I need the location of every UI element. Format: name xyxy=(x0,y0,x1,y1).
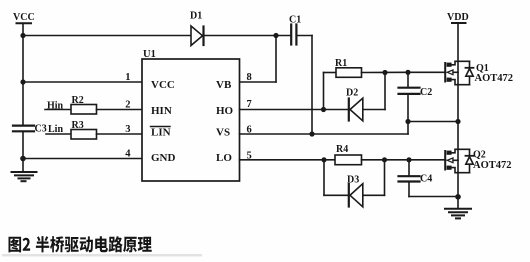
svg-text:VCC: VCC xyxy=(151,79,175,91)
wire D3 branch vertical left xyxy=(323,160,325,196)
svg-text:Q2: Q2 xyxy=(473,150,486,161)
svg-text:VDD: VDD xyxy=(447,12,469,23)
diode D2 xyxy=(349,98,363,121)
node junction C2 / phase link xyxy=(405,119,410,124)
net VCC power symbol xyxy=(17,22,32,24)
capacitor C4 xyxy=(399,176,420,181)
svg-text:4: 4 xyxy=(125,149,131,160)
resistor R4 xyxy=(335,155,362,165)
svg-text:AOT472: AOT472 xyxy=(473,160,512,171)
caption 图2 半桥驱动电路原理 xyxy=(9,236,152,252)
node junction VS line xyxy=(309,131,314,136)
svg-text:LO: LO xyxy=(216,152,232,164)
wire C2 top lead xyxy=(407,72,409,87)
wire Q2 source to ground xyxy=(457,173,459,208)
resistor R3 xyxy=(71,130,97,140)
wire C2 bottom lead xyxy=(407,95,409,134)
wire phase link horizontal xyxy=(408,121,458,123)
wire VDD to Q1 drain xyxy=(457,23,459,61)
svg-text:C2: C2 xyxy=(420,87,432,98)
wire Q1 source to midpoint xyxy=(457,85,459,122)
node junction gate node / C2 xyxy=(405,70,410,75)
capacitor C2 xyxy=(399,88,420,94)
svg-text:C4: C4 xyxy=(420,174,432,185)
wire left VCC rail upper xyxy=(22,23,24,124)
node junction LO / D3 branch right xyxy=(382,157,387,162)
wire R3 to pin3 xyxy=(97,133,143,135)
wire C4 to source node xyxy=(409,196,458,198)
node junction LO / C4 xyxy=(406,157,411,162)
pin LIN label xyxy=(151,127,171,139)
node junction LO / D3 branch left xyxy=(321,157,326,162)
node junction left rail / pin4 xyxy=(20,156,26,162)
node junction VCC rail / top bus xyxy=(20,33,25,38)
svg-text:D3: D3 xyxy=(347,175,359,186)
transistor Q1 xyxy=(445,61,473,84)
wire D3 branch bottom left xyxy=(324,194,349,196)
capacitor C1 xyxy=(291,25,296,45)
wire R1 right lead xyxy=(362,71,409,73)
net VDD power symbol xyxy=(452,22,466,24)
ground right xyxy=(445,209,471,219)
wire R4 right lead xyxy=(362,159,446,161)
svg-text:D2: D2 xyxy=(346,88,358,99)
svg-text:2: 2 xyxy=(125,100,130,111)
capacitor C3 xyxy=(13,126,34,132)
node junction R1 / D2 xyxy=(382,70,387,75)
node junction HO / R1 branch xyxy=(321,107,326,112)
wire pin1 VCC input xyxy=(23,81,142,83)
wire VB branch vertical xyxy=(275,36,277,83)
wire pin7 HO line xyxy=(240,109,349,111)
svg-text:VS: VS xyxy=(216,127,230,139)
wire R2 to pin2 xyxy=(97,109,143,111)
wire pin8 VB xyxy=(240,81,277,83)
node junction VCC rail / pin1 xyxy=(20,79,25,84)
wire D2 branch vertical right xyxy=(384,73,386,110)
wire VS drop vertical xyxy=(311,36,313,135)
svg-text:VB: VB xyxy=(216,79,232,91)
node junction top bus / VB branch xyxy=(273,33,278,38)
op-amp U1 IC body xyxy=(142,59,240,181)
ground left xyxy=(12,172,37,181)
wire C4 bottom lead xyxy=(408,183,410,197)
svg-text:8: 8 xyxy=(247,72,252,83)
transistor Q2 xyxy=(445,149,473,172)
svg-text:R2: R2 xyxy=(72,95,84,106)
svg-text:HO: HO xyxy=(216,105,234,117)
svg-text:HIN: HIN xyxy=(151,105,172,117)
node junction phase link / half-bridge midpoint xyxy=(455,119,460,124)
wire C4 top lead xyxy=(408,160,410,176)
svg-text:GND: GND xyxy=(151,152,176,164)
wire D2 anode lead xyxy=(363,109,385,111)
wire pin6 VS line xyxy=(240,133,409,135)
wire Hin input xyxy=(45,109,71,111)
wire D3 branch vertical right xyxy=(384,160,386,196)
resistor R2 xyxy=(71,105,97,115)
diode D1 xyxy=(191,26,204,46)
svg-text:D1: D1 xyxy=(190,11,202,22)
svg-text:1: 1 xyxy=(125,72,130,83)
svg-text:3: 3 xyxy=(125,124,130,135)
svg-text:R1: R1 xyxy=(335,58,347,69)
wire R1 left lead xyxy=(324,72,337,74)
wire pin4 GND line xyxy=(23,158,142,160)
svg-text:LIN: LIN xyxy=(151,127,171,139)
svg-text:R3: R3 xyxy=(72,120,84,131)
wire gate lead Q1 xyxy=(408,71,446,73)
wire C1 to VS drop xyxy=(296,35,312,37)
resistor R1 xyxy=(336,68,362,78)
svg-text:U1: U1 xyxy=(143,49,156,60)
svg-text:VCC: VCC xyxy=(13,12,35,23)
wire midpoint to Q2 drain xyxy=(457,122,459,150)
wire top bus VCC to D1 xyxy=(23,35,191,37)
svg-text:C3: C3 xyxy=(35,124,47,135)
wire left rail lower xyxy=(22,132,24,171)
svg-text:C1: C1 xyxy=(289,15,301,26)
svg-text:R4: R4 xyxy=(336,144,348,155)
wire D1 cathode to C1 xyxy=(204,35,292,37)
wire R1 branch vertical left xyxy=(323,73,325,110)
wire D3 anode lead xyxy=(363,194,385,196)
scan smudge bottom xyxy=(2,254,202,256)
svg-text:7: 7 xyxy=(247,99,252,110)
node junction Q2 source / ground xyxy=(455,194,461,200)
svg-text:AOT472: AOT472 xyxy=(475,73,514,84)
wire pin5 LO line xyxy=(240,159,336,161)
diode D3 xyxy=(349,184,363,207)
wire Lin input xyxy=(46,133,71,135)
